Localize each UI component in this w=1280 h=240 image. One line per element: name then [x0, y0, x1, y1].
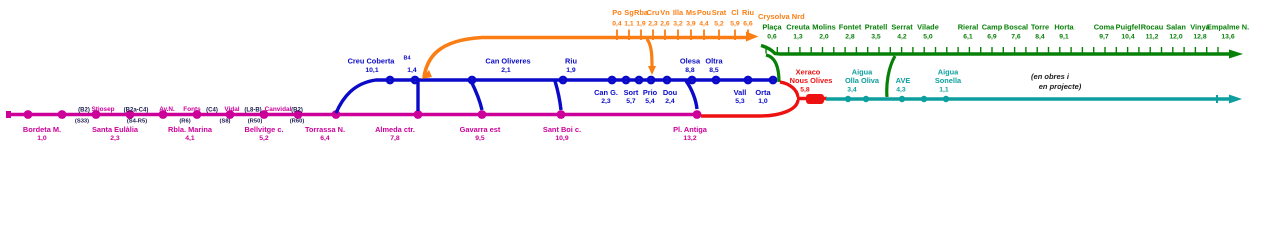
- svg-text:1,3: 1,3: [793, 34, 803, 41]
- svg-text:Creu Coberta: Creu Coberta: [348, 57, 396, 66]
- svg-text:Nous Olives: Nous Olives: [790, 76, 833, 85]
- svg-text:2,8: 2,8: [845, 34, 855, 41]
- svg-text:1,9: 1,9: [636, 21, 646, 28]
- svg-text:6,4: 6,4: [320, 135, 330, 142]
- svg-text:Crysolva Nrd: Crysolva Nrd: [758, 12, 805, 21]
- svg-text:Torrassa N.: Torrassa N.: [305, 125, 345, 134]
- svg-text:Rocau: Rocau: [1141, 23, 1164, 32]
- svg-text:Stjosep: Stjosep: [91, 106, 114, 113]
- svg-text:Can Oliveres: Can Oliveres: [485, 57, 530, 66]
- svg-text:Pratell: Pratell: [865, 23, 888, 32]
- svg-text:Fonts: Fonts: [183, 106, 201, 113]
- svg-text:4,2: 4,2: [897, 34, 907, 41]
- svg-text:2,4: 2,4: [665, 98, 675, 105]
- svg-text:9,1: 9,1: [1059, 34, 1069, 41]
- svg-text:(C4): (C4): [206, 108, 218, 114]
- svg-text:Puigfel: Puigfel: [1116, 23, 1141, 32]
- svg-text:(S33): (S33): [75, 119, 89, 125]
- svg-text:Almeda ctr.: Almeda ctr.: [375, 125, 415, 134]
- svg-text:5,8: 5,8: [800, 87, 810, 94]
- svg-text:Riu: Riu: [565, 57, 577, 66]
- svg-text:(L8-B): (L8-B): [244, 108, 261, 114]
- svg-text:Cl: Cl: [731, 8, 738, 17]
- svg-text:5,9: 5,9: [730, 21, 740, 28]
- svg-text:4,3: 4,3: [896, 87, 906, 94]
- svg-text:6,1: 6,1: [963, 34, 973, 41]
- svg-text:5,4: 5,4: [645, 98, 655, 105]
- svg-text:en projecte): en projecte): [1039, 82, 1082, 91]
- svg-text:1,1: 1,1: [939, 87, 949, 94]
- svg-text:Cru: Cru: [647, 8, 660, 17]
- svg-text:Orta: Orta: [755, 88, 771, 97]
- svg-text:Horta: Horta: [1054, 23, 1074, 32]
- svg-text:5,0: 5,0: [923, 34, 933, 41]
- svg-text:AVE: AVE: [896, 76, 911, 85]
- svg-text:1,0: 1,0: [37, 135, 47, 142]
- svg-text:0,4: 0,4: [612, 21, 622, 28]
- svg-text:1,0: 1,0: [758, 98, 768, 105]
- svg-text:Oltra: Oltra: [705, 57, 723, 66]
- svg-text:Serrat: Serrat: [891, 23, 913, 32]
- svg-text:8,4: 8,4: [1035, 34, 1045, 41]
- svg-text:3,9: 3,9: [686, 21, 696, 28]
- svg-text:Vall: Vall: [734, 88, 747, 97]
- svg-text:7,8: 7,8: [390, 135, 400, 142]
- svg-text:Fontet: Fontet: [839, 23, 862, 32]
- svg-text:Canvidal: Canvidal: [265, 106, 292, 113]
- svg-text:11,2: 11,2: [1146, 34, 1159, 41]
- svg-text:12,0: 12,0: [1169, 34, 1182, 41]
- svg-text:Av.N.: Av.N.: [159, 106, 175, 113]
- svg-text:(S4-R5): (S4-R5): [127, 119, 147, 125]
- svg-text:Plaça: Plaça: [762, 23, 782, 32]
- svg-text:Rbla. Marina: Rbla. Marina: [168, 125, 213, 134]
- svg-text:Vilade: Vilade: [917, 23, 939, 32]
- svg-text:Srat: Srat: [712, 8, 727, 17]
- svg-text:2,6: 2,6: [660, 21, 670, 28]
- svg-text:8,8: 8,8: [685, 67, 695, 74]
- svg-text:9,7: 9,7: [1099, 34, 1109, 41]
- svg-text:Can G.: Can G.: [594, 88, 618, 97]
- svg-text:Coma: Coma: [1094, 23, 1115, 32]
- svg-text:Camp: Camp: [982, 23, 1003, 32]
- svg-text:4,1: 4,1: [185, 135, 195, 142]
- svg-text:Empalme N.: Empalme N.: [1207, 23, 1249, 32]
- svg-text:Vidal: Vidal: [224, 106, 239, 113]
- svg-text:5,2: 5,2: [714, 21, 724, 28]
- svg-text:Bellvitge c.: Bellvitge c.: [244, 125, 283, 134]
- svg-text:7,6: 7,6: [1011, 34, 1021, 41]
- svg-text:5,3: 5,3: [735, 98, 745, 105]
- svg-text:10,9: 10,9: [555, 135, 568, 142]
- svg-text:3,2: 3,2: [673, 21, 683, 28]
- svg-text:(B2a-C4): (B2a-C4): [124, 108, 149, 114]
- svg-text:5,7: 5,7: [626, 98, 636, 105]
- svg-text:1,1: 1,1: [624, 21, 634, 28]
- svg-text:Sort: Sort: [624, 88, 639, 97]
- svg-text:(R60): (R60): [290, 119, 305, 125]
- svg-text:Riu: Riu: [742, 8, 754, 17]
- svg-text:9,5: 9,5: [475, 135, 485, 142]
- svg-text:Po: Po: [612, 8, 622, 17]
- svg-text:6,9: 6,9: [987, 34, 997, 41]
- svg-text:2,3: 2,3: [648, 21, 658, 28]
- svg-text:3,4: 3,4: [847, 87, 857, 94]
- svg-text:Creuta: Creuta: [786, 23, 810, 32]
- svg-text:(S8): (S8): [220, 119, 231, 125]
- svg-text:3,5: 3,5: [871, 34, 881, 41]
- svg-text:(R6): (R6): [179, 119, 190, 125]
- svg-text:Dou: Dou: [663, 88, 678, 97]
- svg-text:Rieral: Rieral: [958, 23, 979, 32]
- svg-text:Pou: Pou: [697, 8, 711, 17]
- svg-text:(en obres i: (en obres i: [1031, 72, 1070, 81]
- svg-text:(B2): (B2): [78, 108, 90, 114]
- svg-text:Sant Boi c.: Sant Boi c.: [543, 125, 581, 134]
- svg-text:Vn: Vn: [660, 8, 670, 17]
- svg-text:6,6: 6,6: [743, 21, 753, 28]
- svg-text:2,3: 2,3: [601, 98, 611, 105]
- svg-text:Prio: Prio: [643, 88, 658, 97]
- svg-text:13,2: 13,2: [683, 135, 696, 142]
- svg-text:Sonella: Sonella: [935, 76, 962, 85]
- svg-text:Boscal: Boscal: [1004, 23, 1028, 32]
- svg-text:2,1: 2,1: [501, 67, 511, 74]
- svg-text:(B2): (B2): [291, 108, 303, 114]
- svg-text:Illa: Illa: [673, 8, 684, 17]
- svg-text:4,4: 4,4: [699, 21, 709, 28]
- svg-text:B4: B4: [403, 56, 411, 62]
- svg-text:1,4: 1,4: [407, 67, 417, 74]
- svg-text:Santa Eulàlia: Santa Eulàlia: [92, 125, 139, 134]
- svg-text:Olla Oliva: Olla Oliva: [845, 76, 880, 85]
- svg-text:Olesa: Olesa: [680, 57, 701, 66]
- svg-text:(R50): (R50): [248, 119, 263, 125]
- svg-text:8,5: 8,5: [709, 67, 719, 74]
- svg-text:Ms: Ms: [686, 8, 696, 17]
- svg-text:Torre: Torre: [1031, 23, 1049, 32]
- svg-text:2,3: 2,3: [110, 135, 120, 142]
- svg-text:10,1: 10,1: [365, 67, 378, 74]
- svg-text:Bordeta M.: Bordeta M.: [23, 125, 61, 134]
- svg-text:5,2: 5,2: [259, 135, 269, 142]
- svg-text:13,6: 13,6: [1221, 34, 1234, 41]
- svg-text:Pl. Antiga: Pl. Antiga: [673, 125, 708, 134]
- svg-text:10,4: 10,4: [1121, 34, 1134, 41]
- svg-text:0,6: 0,6: [767, 34, 777, 41]
- svg-text:Gavarra est: Gavarra est: [460, 125, 501, 134]
- svg-text:2,0: 2,0: [819, 34, 829, 41]
- svg-text:12,8: 12,8: [1193, 34, 1206, 41]
- svg-text:1,9: 1,9: [566, 67, 576, 74]
- svg-text:Molins: Molins: [812, 23, 835, 32]
- svg-text:Sg: Sg: [624, 8, 634, 17]
- svg-text:Salan: Salan: [1166, 23, 1186, 32]
